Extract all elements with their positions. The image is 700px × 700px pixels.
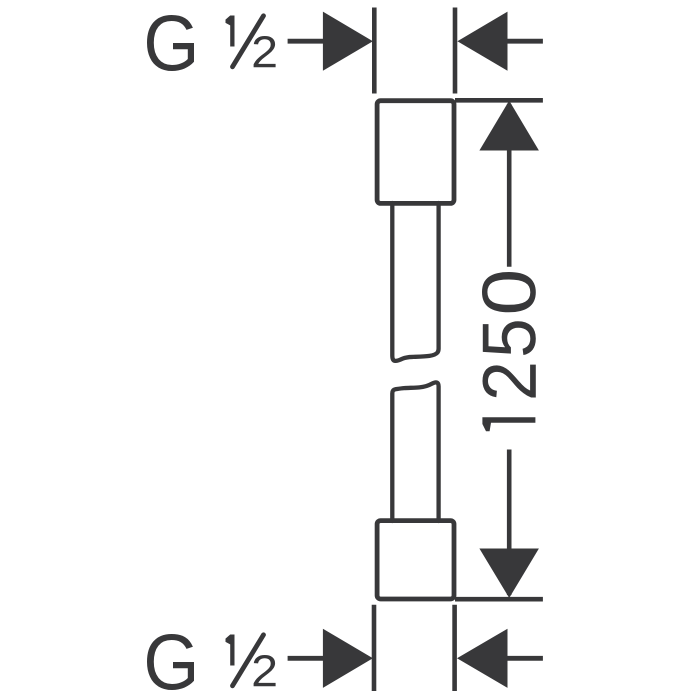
arrowhead bottom-right pointing left <box>457 629 508 688</box>
vertical dimension line 1250 lower part <box>507 450 512 596</box>
dimension line top for 1250 <box>455 98 543 103</box>
top fitting <box>377 101 454 204</box>
label 1/2 bottom numerator 1 <box>226 635 235 666</box>
arrowhead top-left pointing right <box>323 12 373 71</box>
extension line bottom-right <box>452 605 457 691</box>
extension line top-left <box>372 8 377 94</box>
arrowhead up for 1250 <box>479 101 539 151</box>
dimension line bottom for 1250 <box>455 597 543 602</box>
label G bottom <box>147 634 194 690</box>
label G top <box>147 15 194 71</box>
extension line bottom-left <box>372 605 377 691</box>
bottom fitting <box>377 521 454 599</box>
arrowhead bottom-left pointing right <box>323 629 373 688</box>
dimension text digit 2 <box>483 365 536 398</box>
arrowhead down for 1250 <box>479 549 539 599</box>
label 1/2 top fraction slash <box>233 16 264 67</box>
leader line top-left <box>288 39 324 44</box>
label 1/2 top numerator 1 <box>226 16 235 47</box>
arrowhead top-right pointing left <box>457 12 507 71</box>
leader line bottom-left <box>288 656 324 661</box>
dimension text digit 0 <box>482 272 536 312</box>
vertical dimension line 1250 upper part <box>507 104 512 267</box>
label 1/2 bottom denominator 2 <box>254 655 276 686</box>
hose lower segment with break <box>392 382 438 521</box>
label 1/2 top denominator 2 <box>254 36 276 67</box>
dimension text digit 1 <box>482 417 535 431</box>
leader line bottom-right <box>507 656 543 661</box>
dimension text digit 5 <box>483 321 536 355</box>
label 1/2 bottom fraction slash <box>233 635 264 686</box>
leader line top-right <box>507 39 543 44</box>
extension line top-right <box>453 8 458 94</box>
hose upper segment with break <box>392 203 438 361</box>
